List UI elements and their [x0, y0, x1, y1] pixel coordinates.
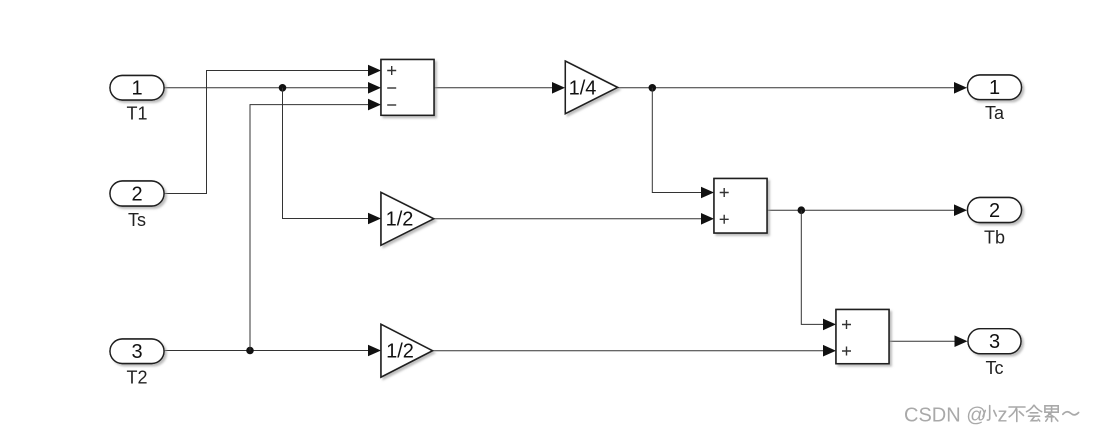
- wire T2 to Gain3 input: [164, 350, 369, 352]
- watermark glyph bu: [1009, 407, 1025, 422]
- watermark tilde: [1063, 412, 1079, 415]
- watermark glyph lei: [1045, 406, 1058, 422]
- arrowhead Gain3 input: [368, 345, 381, 357]
- svg-text:2: 2: [989, 200, 1000, 222]
- Sum3 plus sign input 2: [842, 347, 851, 356]
- wire Gain1 branch down to Sum2 input 1: [652, 88, 702, 193]
- arrowhead Gain2 input: [368, 213, 381, 225]
- svg-text:Ts: Ts: [128, 210, 146, 230]
- inport 1 block: [110, 76, 164, 101]
- arrowhead Sum1 input 3: [368, 99, 381, 111]
- sum block Sum1: [381, 60, 434, 116]
- gain block Gain3: [381, 324, 433, 377]
- watermark glyph xiao: [983, 406, 996, 421]
- wire Ts to Sum1 plus input: [164, 71, 369, 194]
- sum block Sum3: [836, 310, 889, 364]
- svg-text:3: 3: [131, 341, 142, 363]
- svg-text:2: 2: [131, 183, 142, 205]
- wire Sum2 output to outport Tb: [767, 209, 955, 211]
- gain block Gain2: [381, 192, 434, 245]
- wire Sum2 branch down to Sum3 input 1: [801, 210, 824, 324]
- Sum1 minus sign input 2: [387, 87, 396, 89]
- sum block Sum2: [714, 179, 767, 234]
- outport 2 block: [968, 198, 1022, 223]
- junction dot on T1 wire: [279, 84, 287, 92]
- junction dot on T2 wire: [246, 347, 254, 355]
- Sum2 plus sign input 2: [720, 215, 729, 224]
- arrowhead outport Tb: [954, 204, 967, 216]
- arrowhead Gain1 input: [552, 82, 565, 94]
- Sum1 plus sign input 1: [387, 66, 396, 75]
- wire T1 branch down to Gain2 input: [283, 88, 370, 219]
- Sum2 plus sign input 1: [720, 188, 729, 197]
- inport 3 block: [110, 339, 164, 364]
- wire T1 to Sum1 minus input: [164, 87, 369, 89]
- junction dot on Gain1 output wire: [649, 84, 657, 92]
- arrowhead Sum2 input 1: [701, 187, 714, 199]
- svg-text:T2: T2: [126, 367, 147, 387]
- arrowhead Sum3 input 2: [823, 345, 836, 357]
- junction dot on Sum2 output wire: [798, 206, 806, 214]
- Sum1 minus sign input 3: [387, 104, 396, 106]
- gain block Gain1: [565, 61, 617, 114]
- wire Gain2 output to Sum2 input 2: [434, 218, 702, 220]
- inport 2 block: [110, 181, 164, 206]
- arrowhead Sum3 input 1: [823, 319, 836, 331]
- arrowhead Sum1 input 2: [368, 82, 381, 94]
- wire T2 branch up to Sum1 minus input 3: [250, 105, 369, 351]
- svg-text:Tb: Tb: [984, 228, 1005, 248]
- svg-text:Tc: Tc: [986, 358, 1004, 378]
- svg-text:T1: T1: [126, 103, 147, 123]
- svg-text:3: 3: [989, 331, 1000, 353]
- svg-text:CSDN @: CSDN @: [904, 404, 987, 426]
- arrowhead outport Tc: [955, 335, 968, 347]
- outport 3 block: [968, 329, 1021, 354]
- svg-text:1: 1: [989, 77, 1000, 99]
- svg-text:1: 1: [131, 78, 142, 100]
- svg-text:1/4: 1/4: [569, 77, 597, 99]
- wire Sum1 output to Gain1 input: [434, 87, 553, 89]
- outport 1 block: [968, 75, 1022, 100]
- wire Gain1 output to outport Ta: [618, 87, 955, 89]
- arrowhead outport Ta: [954, 82, 967, 94]
- svg-text:Ta: Ta: [985, 103, 1005, 123]
- wire Gain3 output to Sum3 input 2: [433, 350, 825, 352]
- Sum3 plus sign input 1: [842, 320, 851, 329]
- watermark text CSDN: [904, 404, 987, 426]
- watermark glyph hui: [1027, 405, 1042, 421]
- svg-text:1/2: 1/2: [386, 209, 414, 231]
- svg-text:z: z: [998, 404, 1008, 426]
- arrowhead Sum1 input 1: [368, 65, 381, 77]
- svg-text:1/2: 1/2: [386, 340, 414, 362]
- wire Sum3 output to outport Tc: [889, 340, 956, 342]
- arrowhead Sum2 input 2: [701, 213, 714, 225]
